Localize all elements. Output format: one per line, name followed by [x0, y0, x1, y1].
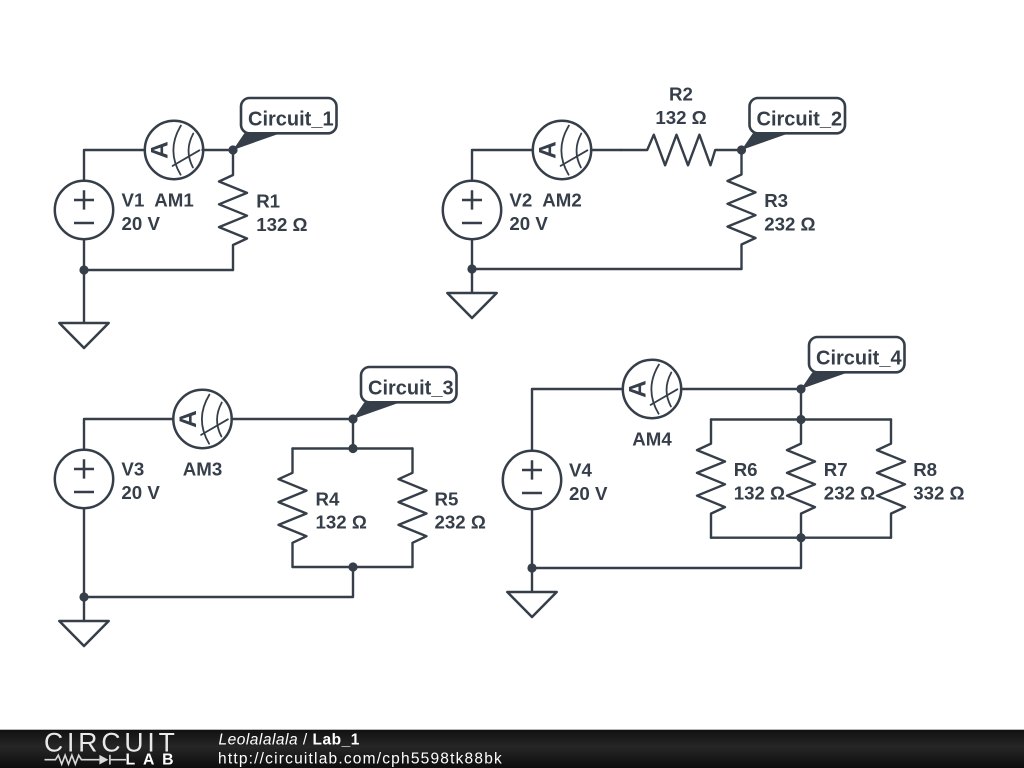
ammeter AM2 — [533, 121, 591, 179]
svg-text:R5: R5 — [435, 488, 459, 509]
wire V4- to ground — [531, 509, 533, 592]
ground GND2 — [447, 293, 496, 318]
svg-text:132 Ω: 132 Ω — [655, 107, 706, 128]
svg-text:A: A — [175, 410, 202, 428]
svg-text:AM3: AM3 — [183, 459, 222, 480]
node Circuit_4 junction — [796, 384, 805, 393]
wire bottom rail to V3- — [84, 567, 353, 597]
svg-text:R4: R4 — [316, 488, 340, 509]
node flag Circuit_2 — [742, 98, 846, 150]
wire V4+ to AM4 — [532, 389, 623, 451]
wire V1+ to AM1 — [84, 150, 146, 181]
node Circuit_3 junction — [348, 414, 357, 423]
resistor R4 — [279, 449, 307, 568]
wire V2- to ground — [471, 239, 473, 293]
junction top rail — [348, 444, 357, 453]
svg-text:A: A — [535, 141, 562, 159]
wire node Circuit_3 down to parallel rail — [352, 419, 354, 449]
resistor R3 — [728, 150, 756, 269]
ammeter AM1 — [145, 121, 203, 179]
junction bottom rail — [348, 562, 357, 571]
voltage source V3 — [55, 450, 113, 508]
svg-text:R7: R7 — [824, 459, 848, 480]
svg-text:A: A — [625, 380, 652, 398]
svg-text:R8: R8 — [913, 459, 937, 480]
voltage source V2 — [443, 181, 501, 239]
resistor R6 — [697, 420, 725, 538]
svg-text:132 Ω: 132 Ω — [734, 483, 785, 504]
svg-text:V3: V3 — [121, 459, 144, 480]
svg-text:AM2: AM2 — [542, 190, 581, 211]
wire R3 bottom to V2- — [472, 268, 742, 270]
ammeter AM3 — [173, 390, 231, 448]
wire parallel top rail — [293, 447, 413, 449]
junction V1- / R1 / ground — [79, 265, 88, 274]
svg-text:R3: R3 — [764, 190, 788, 211]
svg-text:20 V: 20 V — [121, 482, 160, 503]
svg-text:132 Ω: 132 Ω — [256, 214, 307, 235]
resistor R8 — [877, 420, 905, 538]
wire AM2 to R2 — [591, 149, 621, 151]
wire R1 bottom to V1- — [84, 269, 233, 271]
wire V3- to ground — [83, 508, 85, 621]
resistor R2 — [621, 135, 742, 166]
svg-text:LAB: LAB — [126, 752, 182, 768]
wire V3+ to AM3 — [84, 419, 174, 450]
CircuitLab logo resistor-diode squiggle — [45, 755, 127, 765]
resistor R1 — [219, 150, 247, 270]
junction V4- / ground — [527, 563, 536, 572]
node flag Circuit_1 — [233, 98, 337, 150]
node Circuit_1 junction — [228, 145, 237, 154]
svg-text:A: A — [147, 141, 174, 159]
voltage source V1 — [55, 181, 113, 239]
svg-text:V4: V4 — [569, 460, 592, 481]
wire V1- to ground — [83, 239, 85, 323]
junction top rail — [796, 415, 805, 424]
svg-text:AM1: AM1 — [154, 190, 193, 211]
svg-text:R1: R1 — [256, 191, 280, 212]
svg-text:AM4: AM4 — [632, 428, 672, 449]
svg-text:http://circuitlab.com/cph5598t: http://circuitlab.com/cph5598tk88bk — [218, 751, 503, 768]
wire parallel top rail — [711, 418, 891, 420]
svg-text:V2: V2 — [509, 190, 532, 211]
svg-text:Leolalalala / Lab_1: Leolalalala / Lab_1 — [219, 731, 360, 748]
svg-text:V1: V1 — [122, 190, 145, 211]
wire V2+ to AM2 — [472, 150, 533, 181]
svg-text:Circuit_3: Circuit_3 — [368, 377, 454, 399]
node Circuit_2 junction — [737, 145, 746, 154]
svg-text:232 Ω: 232 Ω — [764, 213, 815, 234]
wire AM3 to node Circuit_3 — [232, 418, 354, 420]
resistor R7 — [787, 420, 815, 538]
voltage source V4 — [503, 451, 561, 509]
svg-text:20 V: 20 V — [509, 213, 548, 234]
svg-text:132 Ω: 132 Ω — [316, 512, 367, 533]
wire AM4 to node Circuit_4 — [681, 388, 801, 390]
node flag Circuit_4 — [801, 337, 905, 389]
svg-text:20 V: 20 V — [569, 483, 608, 504]
wire AM1 to node Circuit_1 — [203, 149, 234, 151]
svg-text:332 Ω: 332 Ω — [913, 483, 964, 504]
svg-text:R2: R2 — [669, 84, 693, 105]
wire bottom rail to V4- — [532, 538, 801, 568]
junction bottom rail — [796, 533, 805, 542]
wire parallel bottom rail — [711, 537, 891, 539]
svg-text:232 Ω: 232 Ω — [435, 512, 486, 533]
wire node Circuit_4 down to parallel rail — [800, 389, 802, 420]
svg-text:Circuit_4: Circuit_4 — [816, 347, 902, 369]
svg-text:Circuit_1: Circuit_1 — [248, 108, 334, 130]
ammeter AM4 — [623, 360, 681, 418]
svg-text:Circuit_2: Circuit_2 — [757, 108, 843, 130]
node flag Circuit_3 — [353, 367, 457, 419]
resistor R5 — [399, 449, 427, 568]
junction V2- / R3 / ground — [467, 264, 476, 273]
ground GND4 — [507, 592, 556, 617]
ground GND3 — [59, 621, 108, 646]
wire parallel bottom rail — [293, 566, 413, 568]
svg-text:R6: R6 — [734, 459, 758, 480]
svg-text:20 V: 20 V — [122, 213, 161, 234]
svg-text:232 Ω: 232 Ω — [824, 483, 875, 504]
junction V3- / ground — [79, 592, 88, 601]
ground GND1 — [59, 323, 108, 348]
